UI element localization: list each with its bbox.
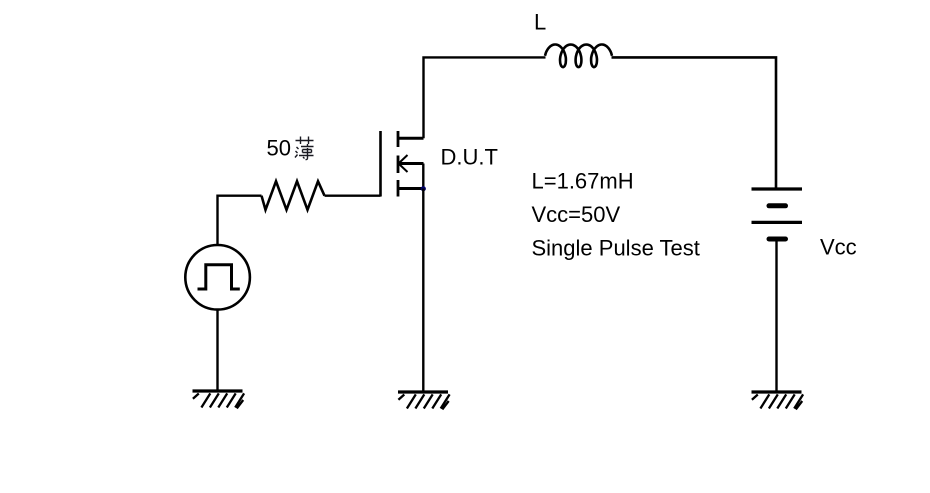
ground right	[752, 392, 804, 409]
ground left	[193, 391, 245, 408]
ground middle	[398, 392, 450, 409]
battery Vcc plate 2 short negative	[769, 203, 786, 208]
wire source to ground	[422, 189, 424, 392]
label L=1.67mH	[532, 168, 634, 193]
svg-text:50: 50	[267, 136, 291, 161]
label Vcc	[820, 235, 857, 260]
pulse source V1 waveform	[198, 265, 240, 289]
svg-text:Vcc: Vcc	[820, 235, 857, 260]
battery Vcc plate 3 long positive	[752, 221, 803, 224]
wire top-right segment from inductor to battery Vcc	[612, 57, 777, 188]
wire battery negative to ground	[775, 239, 777, 392]
wire pulse source to ground	[216, 310, 218, 392]
transistor Q1 body tap with arrow	[399, 155, 424, 172]
transistor Q1 source tap	[398, 187, 423, 190]
label CJK glyph (mojibake ohm) drawn strokes	[295, 137, 314, 160]
transistor Q1 drain tap	[398, 137, 424, 140]
inductor L	[545, 45, 612, 68]
svg-text:L=1.67mH: L=1.67mH	[532, 168, 634, 193]
label Vcc=50V	[532, 202, 621, 227]
battery Vcc plate 4 short negative	[769, 237, 786, 242]
junction dot (navy) at source-body node	[421, 186, 426, 191]
wire resistor to pulse source	[218, 196, 262, 245]
label D.U.T	[441, 145, 498, 170]
svg-text:Single Pulse Test: Single Pulse Test	[532, 235, 700, 260]
transistor Q1 D.U.T channel segments	[397, 131, 400, 197]
label L value	[534, 10, 546, 35]
label Single Pulse Test	[532, 235, 700, 260]
wire gate to resistor	[325, 194, 381, 196]
transistor Q1 D.U.T gate electrode	[379, 131, 382, 197]
svg-text:L: L	[534, 10, 546, 35]
battery Vcc plate 1 long positive	[752, 187, 803, 190]
svg-text:D.U.T: D.U.T	[441, 145, 498, 170]
resistor R 50ohm zigzag	[262, 181, 325, 210]
label 50 (of 50 ohm)	[267, 136, 291, 161]
pulse source V1 circle	[185, 245, 250, 310]
wire top-left segment from MOSFET drain to inductor L	[424, 57, 546, 138]
wire body to source junction	[422, 164, 424, 191]
svg-text:Vcc=50V: Vcc=50V	[532, 202, 621, 227]
